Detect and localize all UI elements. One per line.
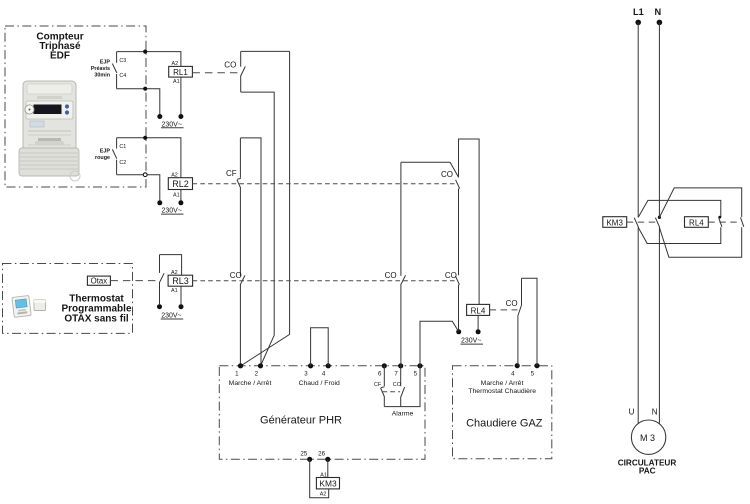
junction on box border bbox=[143, 136, 147, 140]
svg-text:RL2: RL2 bbox=[172, 179, 189, 189]
wire RL4 bypass loop pole 1 bbox=[638, 200, 721, 217]
svg-text:RL4: RL4 bbox=[689, 218, 704, 227]
Otax receiver contact bbox=[160, 255, 165, 305]
wire C1 top to RL2 A2 bbox=[117, 138, 181, 178]
Otax transmitter box bbox=[87, 276, 110, 286]
svg-text:A1: A1 bbox=[320, 472, 327, 478]
dashed actuation link RL4 bbox=[490, 309, 518, 311]
dashed link Otax to receiver contact bbox=[110, 280, 156, 282]
svg-text:Chaud / Froid: Chaud / Froid bbox=[299, 380, 340, 387]
svg-text:RL1: RL1 bbox=[173, 68, 188, 77]
svg-text:Marche / Arrêt: Marche / Arrêt bbox=[229, 380, 272, 387]
contactor coil KM3 bbox=[316, 472, 339, 497]
wire N line upper bbox=[658, 22, 660, 217]
svg-text:PAC: PAC bbox=[639, 467, 656, 476]
supply terminals 230V~ (RL3) bbox=[157, 304, 184, 319]
terminal 6 bbox=[378, 363, 387, 377]
svg-text:CO: CO bbox=[224, 60, 236, 69]
svg-text:L1: L1 bbox=[633, 7, 644, 17]
svg-text:A1: A1 bbox=[171, 288, 178, 294]
wire C4 bottom to 230V terminal bbox=[117, 89, 160, 115]
terminal 26 bbox=[318, 450, 330, 462]
contact CF of RL2 (in 1-2 circuit) bbox=[226, 138, 241, 276]
wire chaudiere 4-5 loop bbox=[522, 278, 538, 365]
label CIRCULATEUR PAC bbox=[618, 458, 677, 475]
terminal 1 bbox=[235, 363, 243, 377]
svg-text:M 3: M 3 bbox=[640, 433, 655, 443]
svg-text:CO: CO bbox=[230, 271, 242, 280]
svg-text:Préavis: Préavis bbox=[91, 66, 110, 72]
svg-text:230V~: 230V~ bbox=[162, 121, 182, 128]
svg-text:C3: C3 bbox=[119, 58, 126, 64]
contact CO of RL1 bbox=[224, 51, 245, 92]
enclosure Compteur Triphasé EDF bbox=[5, 26, 146, 187]
svg-text:230V~: 230V~ bbox=[161, 313, 181, 320]
contact CO of RL3 (RL4 coil circuit) bbox=[445, 271, 460, 329]
wire RL4 bypass loop pole 2 return bbox=[659, 227, 741, 257]
contact CO of RL2 (chaudiere circuit) bbox=[441, 170, 460, 275]
svg-text:RL3: RL3 bbox=[172, 276, 189, 286]
wire CO top bar bbox=[241, 50, 290, 52]
junction on box border bbox=[143, 87, 147, 91]
motor M3 circulateur bbox=[631, 420, 665, 454]
svg-text:230V~: 230V~ bbox=[162, 208, 182, 215]
alarm contact CF bbox=[374, 366, 385, 407]
svg-text:Marche / Arrêt: Marche / Arrêt bbox=[481, 380, 524, 387]
wire N line lower bbox=[658, 227, 660, 423]
node N bbox=[654, 7, 662, 25]
svg-text:EDF: EDF bbox=[50, 51, 70, 62]
svg-text:EJP: EJP bbox=[100, 60, 111, 66]
svg-text:C2: C2 bbox=[119, 160, 126, 166]
relay coil RL3 bbox=[168, 270, 193, 294]
relay coil RL1 bbox=[169, 61, 193, 85]
enclosure Thermostat Programmable OTAX sans fil bbox=[3, 264, 133, 334]
svg-text:C1: C1 bbox=[119, 144, 126, 150]
svg-text:C4: C4 bbox=[119, 73, 126, 79]
relay coil RL4 bbox=[467, 304, 490, 315]
svg-text:6: 6 bbox=[378, 371, 382, 378]
svg-text:U: U bbox=[629, 408, 635, 417]
contact CO of RL3 (on 7 riser) bbox=[385, 271, 406, 366]
enclosure Chaudiere GAZ bbox=[453, 366, 552, 459]
svg-text:4: 4 bbox=[511, 370, 515, 377]
wire 26 to KM3 A1 bbox=[327, 459, 329, 477]
svg-text:EJP: EJP bbox=[100, 149, 111, 155]
svg-text:Chaudiere GAZ: Chaudiere GAZ bbox=[466, 418, 543, 430]
wire RL4 bypass loop pole 2 bbox=[659, 188, 741, 218]
svg-text:A2: A2 bbox=[171, 172, 178, 178]
terminal 4 bbox=[322, 363, 331, 377]
terminal 2 bbox=[255, 363, 264, 377]
terminal 5 bbox=[414, 363, 423, 377]
terminal 5 (chaudiere) bbox=[531, 363, 540, 377]
terminal 3 bbox=[304, 363, 313, 377]
contact CO of RL3 (in 1-2 circuit) bbox=[230, 271, 245, 366]
diagonal wire into junction bbox=[450, 162, 459, 177]
svg-text:CO: CO bbox=[506, 299, 518, 308]
svg-text:A1: A1 bbox=[173, 193, 180, 199]
terminal 25 bbox=[300, 450, 312, 462]
wire RL4 A1 down bbox=[477, 315, 479, 329]
svg-text:1: 1 bbox=[235, 371, 239, 378]
svg-text:CF: CF bbox=[374, 382, 382, 388]
svg-text:CO: CO bbox=[385, 271, 397, 280]
terminal 4 (chaudiere) bbox=[511, 363, 520, 377]
svg-text:Thermostat Chaudière: Thermostat Chaudière bbox=[468, 388, 536, 395]
svg-text:OTAX sans fil: OTAX sans fil bbox=[64, 314, 128, 325]
junction on box border bbox=[143, 173, 147, 177]
wire generator 5 to 230V junction bbox=[420, 321, 459, 366]
wire RL4 bypass loop pole 1 return bbox=[638, 227, 721, 243]
wire CO bottom bar bbox=[241, 92, 275, 366]
contact RL4 pole 1 bbox=[718, 216, 722, 227]
relay coil RL2 bbox=[168, 172, 192, 198]
alarm contact CO bbox=[393, 366, 405, 407]
enclosure Générateur PHR bbox=[219, 366, 425, 460]
dashed actuation link RL2 bbox=[193, 183, 456, 185]
alarm common bar to terminal 5 bbox=[384, 366, 420, 407]
supply terminals 230V~ (RL4) bbox=[456, 329, 483, 344]
wire terminal 7 riser bbox=[400, 162, 402, 276]
wire RL3 A1 down bbox=[180, 286, 182, 304]
svg-text:N: N bbox=[652, 408, 658, 417]
svg-text:CO: CO bbox=[445, 271, 457, 280]
meter photo (EDF three-phase meter) bbox=[19, 81, 80, 181]
svg-text:A2: A2 bbox=[171, 270, 178, 276]
wire L1 line lower bbox=[637, 227, 639, 423]
motor terminal labels U N bbox=[629, 408, 658, 417]
svg-text:CO: CO bbox=[393, 382, 401, 388]
contactor coil KM3 reference bbox=[603, 217, 627, 228]
wire bar to chaudiere CO contact bbox=[401, 161, 450, 163]
dashed actuation link RL1 bbox=[192, 72, 239, 74]
contact KM3 pole L1 bbox=[634, 218, 638, 228]
contact RL4 pole 2 bbox=[741, 217, 744, 226]
svg-text:2: 2 bbox=[255, 371, 259, 378]
svg-text:26: 26 bbox=[318, 450, 325, 457]
thermostat photo bbox=[12, 295, 46, 317]
contact C3/C4 EJP Préavis 30min bbox=[91, 52, 126, 89]
node L1 bbox=[633, 7, 644, 25]
wire L1 line upper bbox=[637, 22, 639, 217]
svg-text:CO: CO bbox=[441, 170, 453, 179]
svg-text:A1: A1 bbox=[173, 79, 180, 85]
wire C3 top to RL1 A2 bbox=[117, 52, 181, 67]
contact KM3 pole N bbox=[655, 216, 661, 228]
wire contact top bar to RL3 A2 bbox=[160, 255, 182, 276]
relay coil RL4 reference bbox=[685, 217, 709, 228]
svg-text:230V~: 230V~ bbox=[461, 338, 481, 345]
contact CO of RL4 (chaudiere 4-5) bbox=[506, 278, 522, 365]
svg-text:5: 5 bbox=[531, 370, 535, 377]
svg-text:5: 5 bbox=[414, 371, 418, 378]
svg-text:30min: 30min bbox=[94, 72, 110, 78]
svg-text:rouge: rouge bbox=[95, 155, 110, 161]
dashed actuation link KM3 bbox=[627, 221, 657, 223]
svg-text:3: 3 bbox=[304, 371, 308, 378]
wire RL1 A1 down bbox=[180, 77, 182, 114]
supply terminals 230V~ (RL1) bbox=[157, 114, 183, 128]
wire RL2 A1 down bbox=[180, 190, 182, 201]
dashed actuation link RL3 bbox=[193, 280, 457, 282]
svg-text:25: 25 bbox=[300, 450, 307, 457]
wire CF top bar and right leg to terminal 2 bbox=[240, 138, 261, 366]
svg-text:A2: A2 bbox=[172, 61, 179, 67]
svg-text:Otax: Otax bbox=[91, 277, 108, 286]
wire 25 to KM3 A2 bbox=[310, 459, 329, 498]
wire C2 bottom to 230V terminal bbox=[117, 175, 160, 201]
svg-text:CF: CF bbox=[226, 169, 237, 178]
supply terminals 230V~ (RL2) bbox=[157, 200, 183, 214]
svg-text:Alarme: Alarme bbox=[392, 410, 414, 417]
wire RL4 branch top bar bbox=[459, 139, 480, 304]
svg-text:N: N bbox=[654, 7, 661, 17]
svg-text:A2: A2 bbox=[320, 492, 327, 498]
svg-text:RL4: RL4 bbox=[471, 306, 486, 315]
junction on box border bbox=[143, 50, 147, 54]
contact C1/C2 EJP rouge bbox=[95, 138, 126, 175]
dashed actuation link RL4 contacts bbox=[708, 221, 740, 223]
dashed mechanical link alarm bbox=[383, 391, 401, 393]
svg-text:Générateur PHR: Générateur PHR bbox=[260, 414, 342, 426]
wire right leg of RL1 CO loop bbox=[241, 51, 290, 366]
svg-text:4: 4 bbox=[322, 371, 326, 378]
svg-text:7: 7 bbox=[394, 371, 398, 378]
terminal 7 bbox=[394, 363, 403, 377]
svg-text:KM3: KM3 bbox=[606, 218, 623, 227]
svg-text:KM3: KM3 bbox=[319, 479, 337, 489]
jumper wire 3-4 bbox=[311, 328, 329, 366]
